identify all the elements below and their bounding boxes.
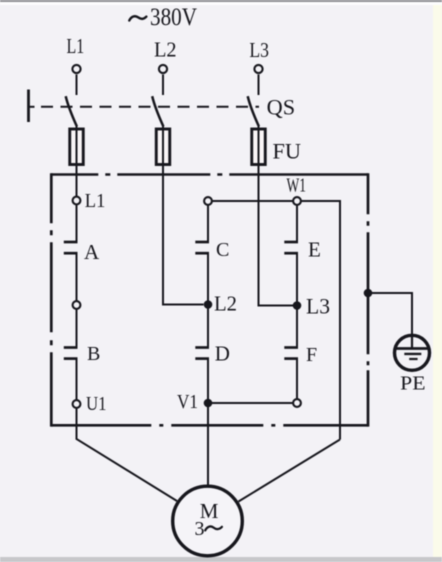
label E (308, 238, 321, 262)
link D (195, 346, 209, 349)
wire pole1 blade to fuse (76, 126, 78, 132)
terminal box border left (50, 173, 53, 426)
switch QS blade pole 2 (152, 96, 163, 126)
wire link B to U1 (76, 359, 78, 400)
label QS (267, 95, 296, 120)
svg-text:FU: FU (273, 139, 302, 164)
wire pole3 blade to fuse (258, 126, 260, 132)
label L1 (supply) (67, 34, 85, 58)
label V1 (177, 391, 198, 413)
wire V1 to bottom-right terminal (208, 402, 293, 404)
wire L3 node to link F (296, 306, 298, 347)
wire link F to bottom-right terminal (296, 359, 298, 399)
label A (84, 240, 100, 264)
label B (87, 343, 100, 365)
link C (195, 241, 209, 244)
label U1 (86, 393, 107, 415)
wire fuse2 down to L2 node (163, 164, 204, 305)
wire pole2 blade to fuse (162, 126, 164, 132)
label ~380V (129, 16, 146, 20)
svg-text:W1: W1 (287, 175, 307, 197)
terminal L2 supply (159, 65, 167, 73)
terminal circle mid left column (73, 301, 81, 309)
svg-text:L3: L3 (306, 294, 330, 319)
wire L3 circle to switch (258, 75, 260, 96)
svg-text:3: 3 (195, 518, 205, 540)
label L2 (supply) (154, 38, 177, 62)
svg-text:U1: U1 (86, 393, 107, 415)
terminal L3 supply (254, 65, 262, 73)
wire W1 lead diagonal to motor (239, 440, 341, 502)
link E (284, 241, 298, 244)
svg-text:C: C (216, 239, 229, 261)
label PE (400, 373, 425, 395)
terminal box border right (367, 173, 370, 426)
switch QS blade pole 3 (248, 96, 259, 126)
label L3 node (306, 294, 330, 319)
svg-text:F: F (306, 344, 317, 366)
earth electrode PE symbol (395, 335, 430, 370)
label L3 (supply) (249, 38, 269, 62)
label C (216, 239, 229, 261)
wire mid terminal to link B (76, 309, 78, 347)
wire link D to V1 node (207, 359, 209, 403)
terminal circle L1 in box (73, 197, 81, 205)
wire PE tap to PE symbol (368, 293, 412, 335)
label M (200, 499, 219, 523)
fuse FU pole 3 (252, 129, 266, 165)
svg-text:L1: L1 (85, 190, 106, 212)
link B (64, 346, 78, 349)
wire fuse3 down to L3 node (259, 164, 294, 306)
wire V1 down to motor (207, 407, 209, 486)
terminal L1 supply (72, 65, 80, 73)
label 3~ (195, 518, 205, 540)
wire fuse1 to terminal L1 (76, 164, 78, 197)
switch QS linkage dashed line (29, 106, 35, 108)
svg-text:L1: L1 (67, 34, 85, 58)
svg-text:380V: 380V (150, 4, 197, 31)
svg-text:L3: L3 (249, 38, 269, 62)
label L1 in box (85, 190, 106, 212)
terminal circle bottom right (293, 399, 301, 407)
label F (306, 344, 317, 366)
label FU (273, 139, 302, 164)
svg-text:E: E (308, 238, 321, 262)
node L2 junction dot (204, 300, 213, 309)
wire L1 circle to switch (76, 75, 78, 96)
svg-text:PE: PE (400, 373, 425, 395)
fuse FU pole 2 (156, 129, 170, 165)
label D (215, 342, 230, 366)
svg-text:L2: L2 (154, 38, 177, 62)
wire mid-top circle to W1 (212, 200, 293, 202)
svg-text:L2: L2 (214, 292, 237, 316)
junction dot PE tap on right border (364, 289, 373, 298)
wire link C to L2 node (207, 253, 209, 304)
wire L1 terminal to link A (76, 205, 78, 242)
wire L2 node to link D (207, 305, 209, 347)
wire link A to mid terminal (76, 253, 78, 301)
svg-text:V1: V1 (177, 391, 198, 413)
terminal circle mid-top (middle column) (204, 197, 212, 205)
fuse FU pole 1 (70, 129, 84, 165)
wire mid-top circle down to link C (207, 205, 209, 241)
motor M circle (173, 486, 243, 556)
wire W1 down to link E (296, 205, 298, 241)
terminal box border bottom (51, 424, 368, 427)
svg-text:B: B (87, 343, 100, 365)
wire L2 circle to switch (162, 75, 164, 96)
wire W1 right and down to motor lead (301, 201, 340, 440)
switch QS blade pole 1 (66, 96, 77, 126)
label W1 (287, 175, 307, 197)
label L2 node (214, 292, 237, 316)
svg-text:QS: QS (267, 95, 296, 120)
svg-text:A: A (84, 240, 100, 264)
node V1 junction dot (204, 399, 213, 408)
terminal box border top (51, 173, 368, 176)
svg-text:D: D (215, 342, 230, 366)
switch QS handle bar (27, 90, 30, 123)
node L3 junction dot (293, 301, 302, 310)
link F (284, 346, 298, 349)
wire link E to L3 node (296, 253, 298, 305)
terminal circle U1 (73, 400, 81, 408)
wire U1 down and diagonal to motor (77, 408, 178, 501)
link A (64, 241, 78, 244)
terminal circle W1 (293, 197, 301, 205)
